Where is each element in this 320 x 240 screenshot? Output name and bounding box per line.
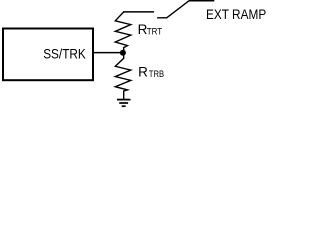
resistor RTRT <box>115 12 131 53</box>
svg-text:EXT RAMP: EXT RAMP <box>206 7 266 22</box>
wire RTRT top to ramp input <box>123 11 154 13</box>
svg-text:SS/TRK: SS/TRK <box>43 46 86 61</box>
node A (junction dot) <box>120 50 126 56</box>
svg-text:R: R <box>138 65 148 80</box>
block SS/TRK (pin box) <box>3 29 93 81</box>
svg-text:TRT: TRT <box>147 27 163 37</box>
svg-text:TRB: TRB <box>149 69 164 79</box>
ground <box>117 100 131 107</box>
wire SS/TRK pin to node A <box>94 52 124 54</box>
ramp waveform symbol (external ramp source) <box>157 1 214 18</box>
resistor RTRB <box>115 53 131 99</box>
